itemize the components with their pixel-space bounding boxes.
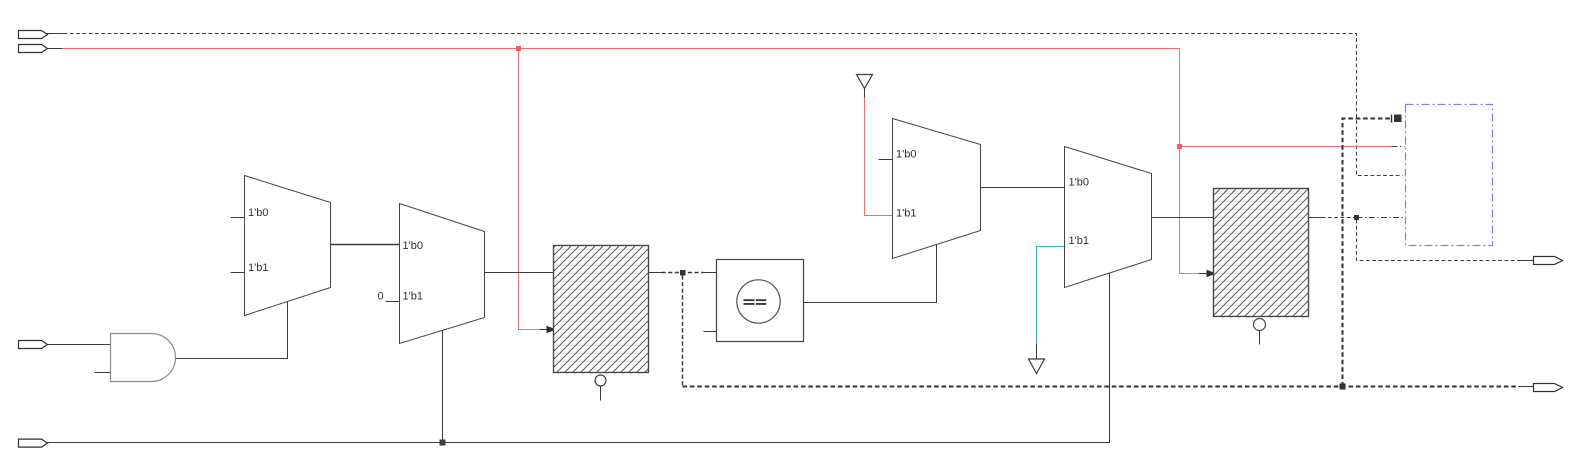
svg-text:1'b0: 1'b0 <box>248 207 268 219</box>
svg-text:1'b0: 1'b0 <box>896 149 916 161</box>
svg-text:1'b1: 1'b1 <box>403 291 423 303</box>
svg-text:0: 0 <box>378 291 384 303</box>
svg-text:1'b0: 1'b0 <box>1069 176 1089 188</box>
svg-text:1'b0: 1'b0 <box>403 240 423 252</box>
svg-text:1'b1: 1'b1 <box>896 207 916 219</box>
svg-text:1'b1: 1'b1 <box>248 262 268 274</box>
svg-text:1'b1: 1'b1 <box>1069 235 1089 247</box>
